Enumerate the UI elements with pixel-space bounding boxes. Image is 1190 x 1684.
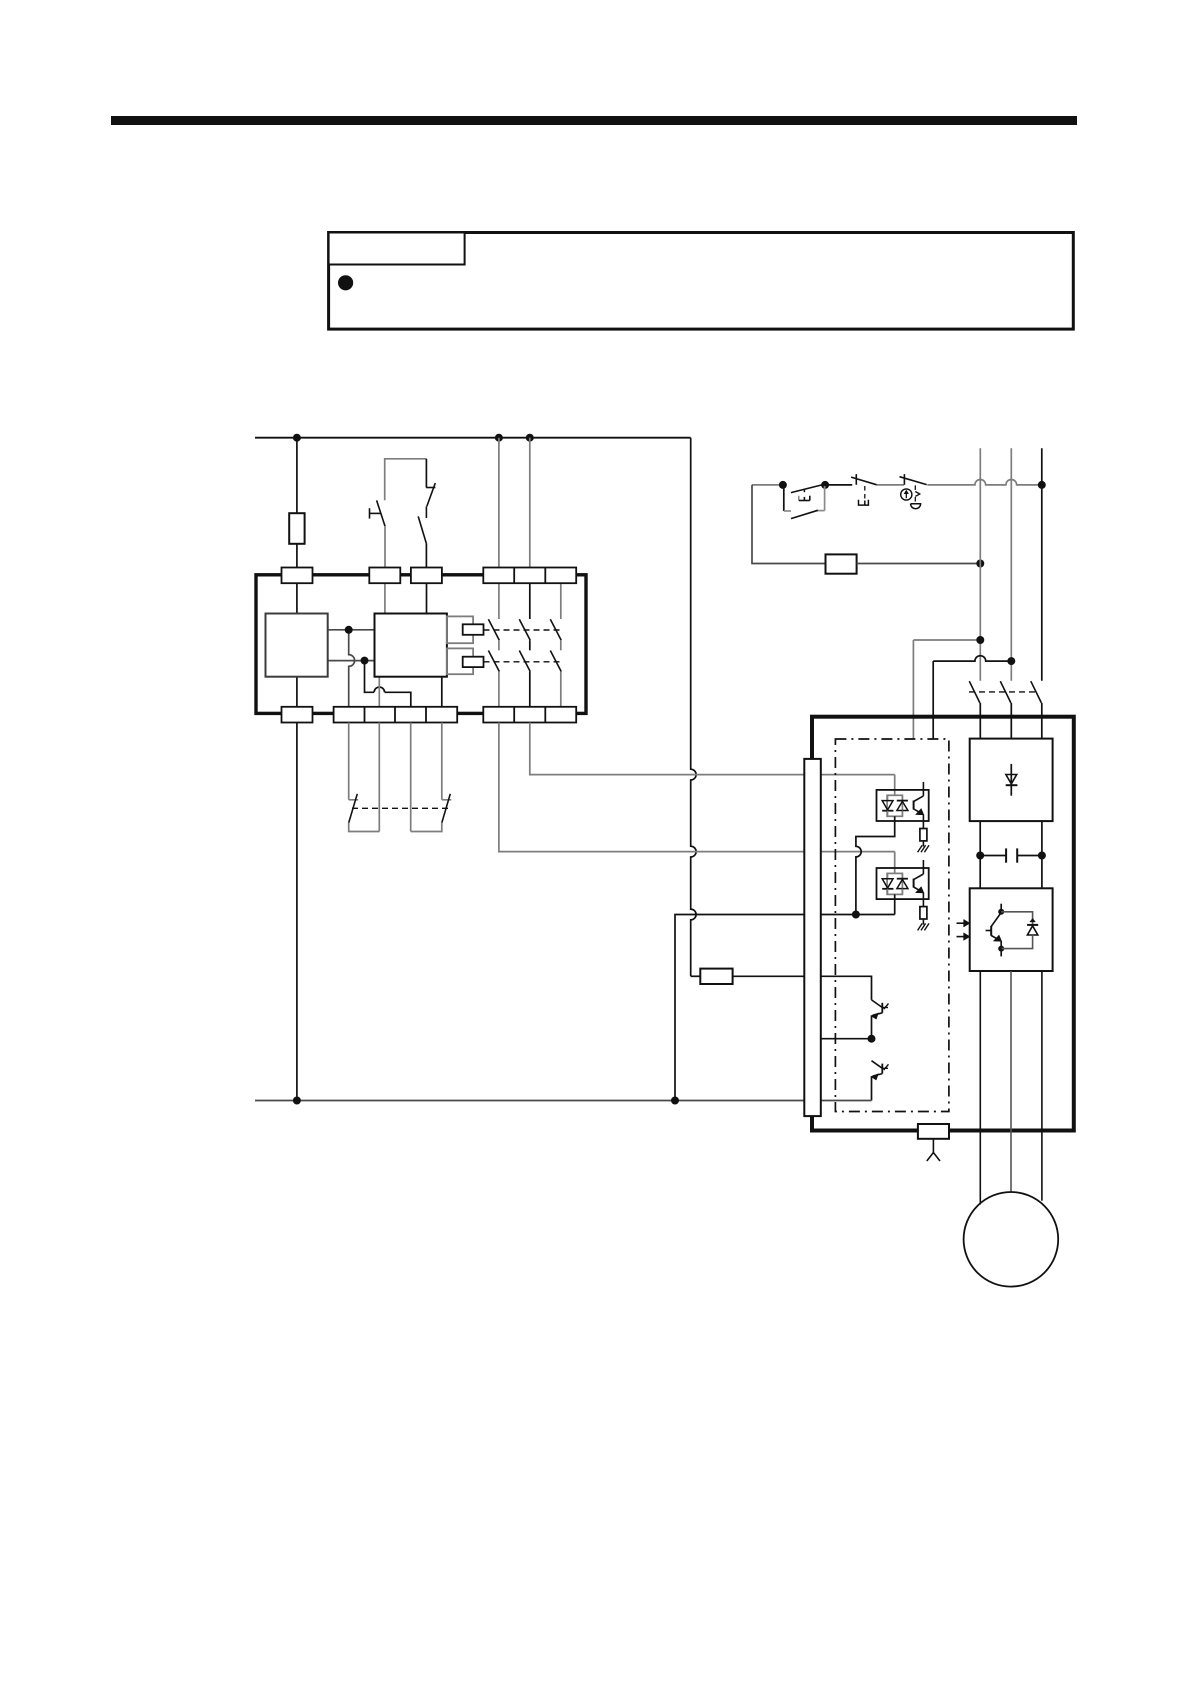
- wire to NC pushbutton: [425, 459, 427, 488]
- node bus-C: [671, 1097, 679, 1105]
- wire opto1 cathode return with hop: [856, 816, 895, 914]
- terminal group B6-B8: [483, 707, 576, 723]
- ground earth symbol: [927, 1139, 940, 1161]
- relay contact column 1: [498, 583, 500, 619]
- caution title tab: [329, 233, 465, 265]
- node L1-L11: [976, 636, 984, 644]
- wire L21 branch with hop: [933, 656, 1011, 661]
- emergency stop switch ES (twin NC): [784, 485, 825, 519]
- dashed linkage aux contacts: [352, 807, 448, 809]
- terminal group T6-T8: [483, 568, 576, 584]
- wire logic box to B3: [378, 677, 380, 707]
- wire T3 to relay logic box: [426, 583, 428, 613]
- pushbutton ON (NO, spring return): [900, 474, 927, 509]
- dashed linkage upper: [484, 629, 561, 631]
- terminal T2: [369, 568, 400, 584]
- aux contact MC-a2: [411, 794, 452, 832]
- wire coil to logic lower: [328, 660, 375, 662]
- terminal T1: [282, 568, 313, 584]
- wire B6 to opto2 input: [499, 723, 895, 852]
- wire node C riser to opto return: [675, 915, 895, 1101]
- wire B2 down: [348, 723, 350, 800]
- wire node to B4 with hop: [365, 661, 411, 707]
- caution bullet: [338, 275, 353, 290]
- wire logic box to B5: [441, 677, 443, 707]
- wire connector to DB mid: [821, 1038, 872, 1040]
- wire R2 to connector: [733, 975, 805, 977]
- connector CN1 bar: [804, 759, 821, 1116]
- terminal PE: [918, 1124, 949, 1139]
- optocoupler PC1: [877, 782, 930, 852]
- wire MC coil branch: [752, 485, 826, 564]
- node relay-a: [345, 626, 353, 634]
- relay armature upper: [447, 616, 473, 643]
- relay logic block: [375, 614, 447, 677]
- aux contact MC-a1: [349, 794, 380, 832]
- capacitor C1: [980, 848, 1042, 862]
- wire B5 down: [441, 723, 443, 800]
- wire PB1 to terminal T2: [384, 526, 386, 567]
- wire opto1 anode feed: [894, 775, 896, 796]
- pushbutton PB1 (NO, start): [369, 500, 385, 526]
- relay coil block: [266, 614, 328, 677]
- wire phase L2: [1010, 448, 1012, 681]
- node cap-P: [976, 852, 984, 860]
- wire rail to terminal T6: [498, 438, 500, 568]
- wire drop from rail right end with hops: [691, 438, 696, 977]
- wire motor U: [979, 971, 981, 1205]
- resistor R2 (inrush): [700, 969, 732, 984]
- motor M: [964, 1192, 1059, 1287]
- node DB mid: [868, 1035, 876, 1043]
- node igbt-c: [998, 909, 1004, 915]
- servo amplifier outline: [812, 717, 1074, 1131]
- caution box: [329, 233, 1074, 330]
- wire drop to resistor R2: [691, 975, 701, 977]
- wire OFF to ON button: [877, 484, 904, 486]
- relay unit RA outline: [256, 575, 586, 714]
- node ES-right: [821, 481, 829, 489]
- wire MC coil to L1: [857, 563, 981, 565]
- wire Q2-Q3 link: [871, 1016, 873, 1039]
- wire bottom bus right segment: [821, 1100, 872, 1102]
- wire coil to logic upper: [328, 629, 375, 631]
- wire top control rail: [255, 437, 691, 439]
- wire motor V: [1010, 971, 1012, 1192]
- coil MC: [826, 554, 857, 573]
- node control-L3: [1038, 481, 1046, 489]
- wire opto2 anode feed: [894, 852, 896, 874]
- relay contact column 2: [529, 583, 531, 619]
- wire B3 down: [378, 723, 380, 832]
- wire bottom common bus: [255, 1100, 804, 1102]
- transistor Q3 (dynamic brake): [871, 1061, 889, 1080]
- terminal B1: [282, 707, 313, 723]
- pushbutton OFF (NC): [851, 474, 877, 505]
- relay contact driver upper: [463, 624, 484, 635]
- wire DC bus N: [1041, 821, 1043, 888]
- wire T1 to coil box: [296, 583, 298, 613]
- node cap-N: [1038, 852, 1046, 860]
- node coil-L1: [976, 560, 984, 568]
- wire coil box to B1: [296, 677, 298, 707]
- relay contact driver lower: [463, 657, 484, 667]
- wire from node down to B2 with hop: [349, 630, 355, 707]
- pushbutton PB2 (NC, stop): [418, 483, 435, 544]
- wire phase L1: [979, 448, 981, 681]
- node rail-R1: [293, 434, 301, 442]
- transistor Q1 (IGBT): [986, 904, 1002, 946]
- resistor R1 (surge suppressor): [289, 513, 304, 544]
- inverter block: [970, 888, 1053, 971]
- wire L11 branch: [913, 639, 980, 641]
- relay armature lower: [447, 648, 473, 674]
- node bus-B1: [293, 1097, 301, 1105]
- terminal group B2-B5: [334, 707, 458, 723]
- wire control line left segment: [752, 484, 784, 486]
- transistor Q2 (dynamic brake): [871, 1000, 889, 1019]
- node L2-L21: [1007, 657, 1015, 665]
- terminal T3: [411, 568, 442, 584]
- wire Q3 to bottom: [871, 1077, 873, 1101]
- wire phase L3: [1041, 448, 1043, 681]
- wire T2 to relay logic box: [384, 583, 386, 613]
- wire PB2 to terminal T3: [425, 544, 427, 568]
- wire DC bus P: [979, 821, 981, 888]
- control circuit block (dash-dot): [835, 739, 949, 1112]
- wire gray U feed of pushbuttons: [385, 459, 427, 500]
- contactor MC main contacts: [969, 681, 1042, 738]
- wire B7 to opto1 input: [530, 723, 895, 775]
- node relay-b: [361, 657, 369, 665]
- diode D1: [1006, 764, 1018, 796]
- node rail-MC1: [495, 434, 503, 442]
- wire rail to resistor: [296, 438, 298, 514]
- wire opto2 cathode: [894, 894, 896, 914]
- node igbt-e: [998, 946, 1004, 952]
- dashed linkage lower: [484, 661, 561, 663]
- optocoupler PC2: [877, 860, 930, 930]
- gate drive arrows: [957, 919, 970, 940]
- wire motor W: [1041, 971, 1043, 1201]
- relay contact column 3: [560, 583, 562, 619]
- diode D2 freewheel: [1001, 912, 1038, 957]
- wire ES to OFF button: [825, 484, 852, 486]
- node opto-return: [852, 911, 860, 919]
- node rail-MC2: [526, 434, 534, 442]
- wire connector to DB transistor top: [821, 976, 872, 1000]
- node ES-left: [779, 481, 787, 489]
- wire rail to terminal T7: [529, 438, 531, 568]
- wire B4 down: [410, 723, 412, 832]
- wire resistor to terminal T1: [296, 544, 298, 568]
- wire B1 to bottom bus: [296, 723, 298, 1101]
- rectifier block: [970, 739, 1053, 822]
- wire ON to power line with hops: [927, 480, 1042, 485]
- page header rule: [111, 116, 1077, 125]
